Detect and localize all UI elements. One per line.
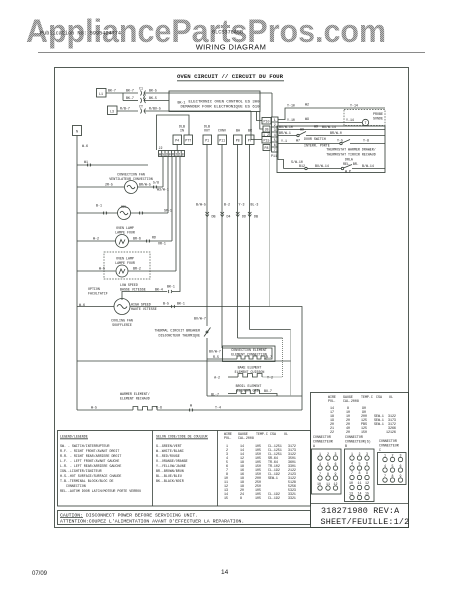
svg-text:BR: BR <box>248 129 252 133</box>
svg-text:4: 4 <box>384 464 386 468</box>
svg-text:P15: P15 <box>264 139 270 143</box>
svg-text:15: 15 <box>224 496 228 500</box>
svg-text:1: 1 <box>351 452 353 456</box>
strip drop wire to lamp2 <box>175 157 177 271</box>
svg-text:SELON CODE/CODE DE COULEUR: SELON CODE/CODE DE COULEUR <box>156 435 207 439</box>
svg-text:BAKE ELEMENT: BAKE ELEMENT <box>238 366 262 370</box>
svg-text:CONNECTEUR(S): CONNECTEUR(S) <box>345 440 371 444</box>
wire BK-5 top run to pin strip <box>144 89 273 118</box>
sheet border <box>55 68 409 528</box>
svg-text:11: 11 <box>326 482 330 486</box>
svg-text:3: 3 <box>166 153 168 157</box>
svg-text:WARMER ELEMENT/: WARMER ELEMENT/ <box>120 392 150 396</box>
svg-text:5: 5 <box>274 138 276 142</box>
svg-text:1: 1 <box>319 452 321 456</box>
svg-text:SOUFFLERIE: SOUFFLERIE <box>112 323 132 327</box>
svg-text:OPTION: OPTION <box>88 287 100 291</box>
svg-text:LAMPE FOUR: LAMPE FOUR <box>115 231 135 235</box>
svg-text:Y-14: Y-14 <box>346 118 354 122</box>
svg-text:BK-1: BK-1 <box>167 285 175 289</box>
svg-text:P11: P11 <box>219 139 225 143</box>
wire L1 to breaker C1 <box>106 89 138 94</box>
wire pin3 BU/W <box>278 125 385 130</box>
svg-text:5: 5 <box>162 153 164 157</box>
svg-text:BR.-BROWN/BRUN: BR.-BROWN/BRUN <box>156 469 184 473</box>
strip drop wire to fan low <box>179 157 181 288</box>
svg-text:B/W-14: B/W-14 <box>362 164 374 168</box>
door/thermostat outer box <box>277 126 385 173</box>
svg-text:CAL.2008: CAL.2008 <box>238 436 254 440</box>
thermal circuit breaker <box>154 317 210 338</box>
svg-text:CAL.2008: CAL.2008 <box>343 399 359 403</box>
svg-text:TEMP.C: TEMP.C <box>256 432 268 436</box>
connector P1 <box>203 135 212 145</box>
svg-text:Y-5: Y-5 <box>337 139 343 143</box>
svg-text:Y.-YELLOW/JAUNE: Y.-YELLOW/JAUNE <box>156 464 186 468</box>
svg-text:REL.-AUTOM DOOR LATCH/MOTEUR P: REL.-AUTOM DOOR LATCH/MOTEUR PORTE VERRO… <box>60 489 141 493</box>
svg-text:BK-5: BK-5 <box>149 89 157 93</box>
svg-text:5/8: 5/8 <box>153 181 159 185</box>
svg-text:3: 3 <box>366 452 368 456</box>
svg-text:P8: P8 <box>236 139 240 143</box>
svg-text:P7: P7 <box>248 139 252 143</box>
oven lamp label <box>115 226 135 235</box>
svg-text:7: 7 <box>319 472 321 476</box>
connector P4 <box>173 135 182 145</box>
svg-text:DISJONCTEUR THERMIQUE: DISJONCTEUR THERMIQUE <box>158 334 200 338</box>
door switch row <box>278 137 385 148</box>
svg-text:BK-4: BK-4 <box>155 288 163 292</box>
svg-text:W-6: W-6 <box>79 303 85 307</box>
svg-text:BA: BA <box>236 129 240 133</box>
svg-text:FACULTATIF: FACULTATIF <box>88 292 108 296</box>
svg-text:8: 8 <box>240 496 242 500</box>
svg-text:11: 11 <box>358 481 362 485</box>
convection element coil <box>207 350 272 360</box>
svg-text:H.S.-HOT SURFACE/SURFACE CHAUD: H.S.-HOT SURFACE/SURFACE CHAUDE <box>60 474 121 478</box>
svg-text:JB: JB <box>265 128 269 132</box>
electronic oven control box U1 <box>169 91 260 112</box>
svg-text:14: 14 <box>221 569 229 576</box>
oven lamp <box>77 235 172 248</box>
svg-text:1: 1 <box>274 118 276 122</box>
svg-text:CONNECTION: CONNECTION <box>66 484 86 488</box>
svg-text:5: 5 <box>359 462 361 466</box>
svg-text:BK-1: BK-1 <box>177 302 185 306</box>
svg-text:COOLING FAN: COOLING FAN <box>111 319 133 323</box>
breaker C1 <box>139 87 146 96</box>
wire bottom run <box>207 395 302 397</box>
svg-text:DEMANDER FOUR ELECTRONIQUE ES: DEMANDER FOUR ELECTRONIQUE ES 610 <box>181 106 260 110</box>
svg-text:CONNECTEUR: CONNECTEUR <box>313 440 333 444</box>
svg-text:BR/W-0: BR/W-0 <box>330 131 342 135</box>
line L1 terminal box <box>97 89 107 98</box>
svg-text:10: 10 <box>349 481 353 485</box>
svg-text:UL: UL <box>389 395 393 399</box>
svg-text:BROIL ELEMENT: BROIL ELEMENT <box>236 384 262 388</box>
svg-text:9: 9 <box>400 474 402 478</box>
svg-text:BR/W-1: BR/W-1 <box>279 131 291 135</box>
svg-text:BK-7: BK-7 <box>108 89 116 93</box>
svg-text:BR/W-5: BR/W-5 <box>139 183 151 187</box>
svg-text:A: A <box>313 444 315 448</box>
neutral bus wire <box>77 136 88 411</box>
svg-text:HAUTE VITESSE: HAUTE VITESSE <box>131 307 157 311</box>
broil element label <box>236 384 262 393</box>
svg-text:Y-3: Y-3 <box>239 203 245 207</box>
connector P11 <box>218 135 227 145</box>
svg-text:12: 12 <box>334 482 338 486</box>
svg-text:7: 7 <box>351 471 353 475</box>
right lower box <box>311 393 409 528</box>
svg-text:G.-GREEN/VERT: G.-GREEN/VERT <box>156 444 182 448</box>
connector PTT <box>184 135 193 145</box>
svg-text:TEMP.C: TEMP.C <box>361 395 373 399</box>
svg-text:P8: P8 <box>265 146 269 150</box>
bus wire from P11 <box>221 145 231 349</box>
svg-text:W9: W9 <box>305 117 309 121</box>
svg-text:DD: DD <box>242 215 246 219</box>
svg-text:4: 4 <box>351 462 353 466</box>
svg-text:BL-3: BL-3 <box>251 203 259 207</box>
svg-text:ELEMENT RECHAUD: ELEMENT RECHAUD <box>120 397 150 401</box>
label DLB OUT <box>204 125 210 133</box>
probe sensor T <box>362 119 368 125</box>
svg-text:N: N <box>76 130 78 134</box>
bake element coil <box>214 374 273 380</box>
connector strip J2 <box>159 146 185 157</box>
svg-text:Y-1: Y-1 <box>281 139 287 143</box>
svg-text:T.B.-TERMINAL BLOCK/BLOC DE: T.B.-TERMINAL BLOCK/BLOC DE <box>60 479 113 483</box>
title underline <box>177 80 284 82</box>
svg-text:2: 2 <box>327 452 329 456</box>
svg-text:L.F. - LEFT FRONT/AVANT GAUCHE: L.F. - LEFT FRONT/AVANT GAUCHE <box>60 459 119 463</box>
svg-text:ELEMENT GRIL: ELEMENT GRIL <box>237 389 261 393</box>
motor door lock MDL <box>77 204 172 220</box>
svg-text:6: 6 <box>400 464 402 468</box>
svg-text:BK-7: BK-7 <box>126 89 134 93</box>
svg-text:SONDE: SONDE <box>373 117 383 121</box>
svg-text:PROBE: PROBE <box>373 112 383 116</box>
svg-text:W7: W7 <box>296 139 300 143</box>
svg-text:P1: P1 <box>205 139 209 143</box>
svg-text:Y-2: Y-2 <box>267 376 273 380</box>
svg-text:HIGH SPEED: HIGH SPEED <box>131 303 151 307</box>
svg-text:P4: P4 <box>175 139 179 143</box>
svg-text:Y-8: Y-8 <box>363 139 369 143</box>
convection fan label <box>109 173 153 182</box>
breaker link squiggle <box>143 95 146 101</box>
svg-text:BR-2: BR-2 <box>133 267 141 271</box>
svg-text:2: 2 <box>359 452 361 456</box>
svg-text:T-4: T-4 <box>215 406 221 410</box>
legend column text <box>60 435 141 494</box>
svg-text:W9: W9 <box>314 125 318 129</box>
connector A pins <box>312 449 342 494</box>
cooling fan motor <box>77 299 130 315</box>
svg-text:CONNECTEUR: CONNECTEUR <box>379 444 399 448</box>
svg-text:W9: W9 <box>300 128 304 132</box>
svg-text:DB: DB <box>212 215 216 219</box>
cooling fan label <box>111 319 133 328</box>
svg-text:BU/W-7: BU/W-7 <box>209 350 221 354</box>
svg-text:IGN.-LIGHTER/IGNITEUR: IGN.-LIGHTER/IGNITEUR <box>60 469 102 473</box>
legend box <box>58 431 311 507</box>
svg-text:R-5: R-5 <box>213 355 219 359</box>
svg-text:D4: D4 <box>227 215 231 219</box>
svg-text:BU-7: BU-7 <box>264 389 272 393</box>
line L3 terminal box <box>108 106 118 115</box>
svg-text:318271980 REV:A: 318271980 REV:A <box>321 506 400 516</box>
svg-text:POL.: POL. <box>224 436 232 440</box>
svg-text:THERMOSTAT WARMER DRAWER/: THERMOSTAT WARMER DRAWER/ <box>326 148 375 152</box>
svg-text:LEGEND/LEGENDE: LEGEND/LEGENDE <box>60 435 88 439</box>
bus wire from P8r strip <box>270 151 303 411</box>
connector P10 <box>262 118 271 125</box>
svg-text:105: 105 <box>255 496 261 500</box>
svg-text:8: 8 <box>327 472 329 476</box>
svg-text:12: 12 <box>365 481 369 485</box>
wire step P8 to bake right <box>238 337 283 339</box>
svg-text:3321: 3321 <box>288 496 296 500</box>
low speed tap <box>120 283 180 300</box>
svg-text:PTT: PTT <box>185 139 191 143</box>
connector P8 <box>234 135 243 145</box>
convection fan motor <box>77 181 169 194</box>
wire second BK run <box>123 93 138 101</box>
svg-text:W-2: W-2 <box>93 237 99 241</box>
svg-text:9: 9 <box>335 472 337 476</box>
probe box dashed <box>344 110 385 126</box>
svg-text:GLCS378ASB: GLCS378ASB <box>212 30 243 36</box>
wire R/BU-5 run to P15 <box>144 107 263 140</box>
svg-text:10: 10 <box>317 482 321 486</box>
svg-text:Y-10: Y-10 <box>287 118 295 122</box>
connector P15 <box>262 137 271 144</box>
svg-text:13: 13 <box>349 492 353 496</box>
svg-text:THERMOSTAT TIROIR RECHAUD: THERMOSTAT TIROIR RECHAUD <box>326 153 375 157</box>
svg-text:POL.: POL. <box>328 399 336 403</box>
wire step P7 to broil right <box>250 329 291 331</box>
svg-text:L1: L1 <box>99 92 103 96</box>
svg-text:BK-7: BK-7 <box>126 96 134 100</box>
connector P7 <box>246 135 255 145</box>
svg-text:P10: P10 <box>264 120 270 124</box>
connector JB <box>263 126 270 132</box>
P4 stub <box>176 145 178 151</box>
svg-text:T: T <box>365 121 367 125</box>
warmer element coil <box>77 404 302 412</box>
svg-text:0: 0 <box>169 153 171 157</box>
svg-text:C: C <box>379 448 381 452</box>
svg-text:CSA: CSA <box>376 395 382 399</box>
connector pair 1 2 <box>262 133 270 138</box>
svg-text:BU/W-14: BU/W-14 <box>322 125 336 129</box>
connector C label <box>379 439 399 452</box>
svg-text:B: B <box>345 444 347 448</box>
svg-text:C1: C1 <box>139 87 143 91</box>
label DLB IN <box>179 125 185 133</box>
svg-text:R/BU-5: R/BU-5 <box>149 107 161 111</box>
branch wire W1 <box>77 160 148 167</box>
svg-text:CONVECTION FAN: CONVECTION FAN <box>117 173 145 177</box>
svg-text:2: 2 <box>274 123 276 127</box>
svg-text:1: 1 <box>384 454 386 458</box>
svg-text:CT: CT <box>139 105 143 109</box>
breaker C2 <box>141 98 146 103</box>
svg-text:CONNECTOR: CONNECTOR <box>313 435 331 439</box>
svg-text:W.-WHITE/BLANC: W.-WHITE/BLANC <box>156 449 184 453</box>
svg-text:UL: UL <box>284 432 288 436</box>
svg-text:BL.-BLUE/BLEU: BL.-BLUE/BLEU <box>156 474 182 478</box>
svg-text:REL. BR.: REL. BR. <box>343 162 359 166</box>
strip drop wire to MDL <box>167 157 169 213</box>
svg-text:BK.-BLACK/NOIR: BK.-BLACK/NOIR <box>156 479 184 483</box>
svg-text:7: 7 <box>274 148 276 152</box>
svg-text:R/B-7: R/B-7 <box>120 107 130 111</box>
breaker CT <box>139 105 146 114</box>
svg-text:W P: W P <box>345 170 351 174</box>
wire BK-5 second run into control <box>144 96 186 105</box>
svg-text:BU/W-7: BU/W-7 <box>194 317 206 321</box>
svg-text:DB: DB <box>254 215 258 219</box>
svg-text:CONNECTOR: CONNECTOR <box>345 435 363 439</box>
svg-text:22: 22 <box>330 430 334 434</box>
svg-text:Y-14: Y-14 <box>350 104 358 108</box>
svg-text:W: W <box>190 404 192 408</box>
wire pin4 BR/W with switch <box>278 128 385 137</box>
svg-text:WIRING DIAGRAM: WIRING DIAGRAM <box>196 43 267 52</box>
legend wire gauge table <box>224 432 296 500</box>
svg-text:6: 6 <box>335 462 337 466</box>
svg-text:3: 3 <box>274 128 276 132</box>
svg-text:20: 20 <box>346 430 350 434</box>
bake element label <box>235 366 265 375</box>
svg-text:LOW SPEED: LOW SPEED <box>120 283 138 287</box>
svg-text:BL-7: BL-7 <box>211 393 219 397</box>
svg-text:A-2: A-2 <box>214 376 220 380</box>
oven lamp 2 <box>77 265 176 277</box>
wire right vertical to broil <box>290 330 292 397</box>
strip drop wire to conv fan <box>162 157 164 187</box>
svg-text:3: 3 <box>400 454 402 458</box>
neutral run to elements <box>77 360 291 362</box>
svg-text:14: 14 <box>358 492 362 496</box>
svg-text:W3/W-1: W3/W-1 <box>157 188 169 192</box>
svg-text:CONNECTOR: CONNECTOR <box>379 439 397 443</box>
svg-text:DRLA: DRLA <box>345 158 353 162</box>
svg-text:L3: L3 <box>110 110 114 114</box>
svg-text:8: 8 <box>392 474 394 478</box>
svg-text:BK-5: BK-5 <box>149 96 157 100</box>
svg-text:150: 150 <box>361 430 367 434</box>
warmer element label <box>120 392 150 401</box>
svg-text:9: 9 <box>366 471 368 475</box>
svg-text:LAMPE FOUR: LAMPE FOUR <box>115 261 135 265</box>
connector P8r <box>263 145 270 151</box>
svg-text:BU/W-10: BU/W-10 <box>279 125 293 129</box>
warmer thermostat row <box>278 152 385 174</box>
svg-text:2R-5: 2R-5 <box>105 183 113 187</box>
right wire table <box>328 395 396 434</box>
svg-text:ELECTRONIC OVEN CONTROL ES 300: ELECTRONIC OVEN CONTROL ES 300 <box>189 101 260 105</box>
svg-text:B-7: B-7 <box>266 355 272 359</box>
bus wire from P8 <box>236 145 246 339</box>
svg-text:R: R <box>172 153 174 157</box>
svg-text:C-6: C-6 <box>156 406 162 410</box>
svg-text:Y-10: Y-10 <box>287 104 295 108</box>
convection element box <box>223 346 276 362</box>
svg-text:B-1: B-1 <box>96 204 102 208</box>
svg-text:BK-1: BK-1 <box>178 101 186 105</box>
pin strip J1 pins 1-7 <box>271 117 278 158</box>
svg-text:P11: P11 <box>271 154 277 158</box>
svg-text:2: 2 <box>392 454 394 458</box>
svg-text:J2: J2 <box>159 146 163 150</box>
neutral terminal N box <box>73 126 82 136</box>
svg-text:B-2: B-2 <box>224 203 230 207</box>
svg-text:SW. - SWITCH/INTERRUPTEUR: SW. - SWITCH/INTERRUPTEUR <box>60 444 109 448</box>
svg-text:7: 7 <box>384 474 386 478</box>
wire corner to J2 <box>157 115 190 150</box>
svg-text:6: 6 <box>274 143 276 147</box>
wires control box to P10/JB column <box>257 112 264 130</box>
option dashed box oven lamp 2 <box>104 252 150 279</box>
svg-text:6: 6 <box>366 462 368 466</box>
color code column text <box>156 435 208 484</box>
svg-text:R.F. - RIGHT FRONT/AVANT DROIT: R.F. - RIGHT FRONT/AVANT DROIT <box>60 449 119 453</box>
header underline <box>38 52 425 54</box>
option facultatif label <box>88 287 108 296</box>
svg-text:R.-RED/ROUGE: R.-RED/ROUGE <box>156 454 180 458</box>
svg-text:OR-1: OR-1 <box>158 242 166 246</box>
svg-text:DOOR SWITCH: DOOR SWITCH <box>304 137 326 141</box>
svg-text:OVEN CIRCUIT // CIRCUIT DU FOU: OVEN CIRCUIT // CIRCUIT DU FOUR <box>177 73 284 80</box>
svg-text:R.R. - RIGHT REAR/ARRIERE DROI: R.R. - RIGHT REAR/ARRIERE DROIT <box>60 454 121 458</box>
wire right vertical to bake <box>262 338 283 377</box>
svg-text:5: 5 <box>392 464 394 468</box>
svg-text:4: 4 <box>319 462 321 466</box>
svg-text:1: 1 <box>179 153 181 157</box>
svg-text:5: 5 <box>327 462 329 466</box>
svg-text:W-6: W-6 <box>82 144 88 148</box>
svg-text:ATTENTION:COUPEZ L'ALIMENTATIO: ATTENTION:COUPEZ L'ALIMENTATION AVANT D'… <box>60 519 244 525</box>
svg-text:SEW-1: SEW-1 <box>374 422 384 426</box>
svg-text:15: 15 <box>365 492 369 496</box>
svg-text:4: 4 <box>274 133 276 137</box>
svg-text:07/09: 07/09 <box>32 571 48 577</box>
svg-text:B12: B12 <box>299 164 305 168</box>
svg-text:W2: W2 <box>305 103 309 107</box>
svg-text:OVEN LAMP: OVEN LAMP <box>116 226 134 230</box>
bus wire from P7 <box>248 145 258 330</box>
svg-text:CSA: CSA <box>270 432 276 436</box>
svg-text:OVEN LAMP: OVEN LAMP <box>116 257 134 261</box>
svg-text:BASSE VITESSE: BASSE VITESSE <box>120 288 146 292</box>
svg-text:B-5: B-5 <box>163 302 169 306</box>
svg-text:SHEET/FEUILLE:1/2: SHEET/FEUILLE:1/2 <box>321 517 410 527</box>
svg-text:CONVECTION ELEMENT: CONVECTION ELEMENT <box>231 348 267 352</box>
connector B label <box>345 435 371 448</box>
wire pin1 to probe top <box>278 103 385 120</box>
svg-text:W: W <box>159 153 161 157</box>
broil element coil <box>211 389 272 397</box>
connector A label <box>313 435 333 448</box>
caution box <box>58 511 311 525</box>
connector B pins <box>345 449 375 502</box>
svg-text:SEW-1: SEW-1 <box>268 476 278 480</box>
svg-text:W-5: W-5 <box>99 267 105 271</box>
